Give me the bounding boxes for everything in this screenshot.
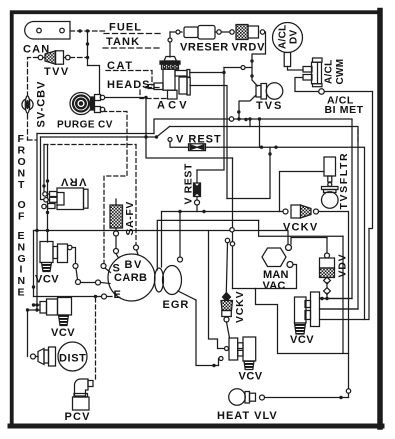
node connector circles on x232.5 bbox=[225, 228, 234, 246]
valve HEAT VLV bbox=[229, 389, 265, 406]
svg-text:DIST: DIST bbox=[59, 353, 86, 365]
wire HEADS dashed to ACV bbox=[140, 88, 168, 99]
node dots on VRDV wire bbox=[250, 59, 253, 77]
node open circle bbox=[176, 30, 180, 34]
svg-text:HEADS: HEADS bbox=[107, 79, 151, 91]
svg-text:VCKV: VCKV bbox=[234, 291, 246, 323]
label FRONT OF ENGINE (vertical letters) bbox=[18, 133, 26, 299]
wire bus y220.4 bbox=[157, 220, 258, 270]
wire x258.6 riser bbox=[259, 220, 343, 236]
node dot bbox=[32, 285, 35, 288]
valve VCV4 bbox=[295, 292, 320, 334]
wire fuel-tank dashed underlines bbox=[103, 34, 162, 49]
wire EGR bottom to VCV3 bbox=[196, 300, 219, 366]
wire CAT dashed bbox=[106, 71, 152, 86]
svg-text:O: O bbox=[18, 156, 26, 168]
svg-text:VRV: VRV bbox=[60, 176, 87, 188]
wire x279.5 tvs filter riser bbox=[280, 172, 325, 212]
filter TVSFLTR bbox=[322, 157, 339, 208]
svg-text:O: O bbox=[18, 199, 26, 211]
wire left bracket x208.5 down to VCV3 bbox=[209, 231, 225, 349]
wire x270 drop bbox=[227, 147, 270, 198]
wire purge bottom nipple dashed loop to carb bbox=[104, 110, 127, 264]
svg-text:SA-FV: SA-FV bbox=[124, 201, 136, 236]
valve SV-CBV bbox=[22, 96, 33, 114]
svg-text:DV: DV bbox=[289, 29, 300, 44]
wire right bus from BI MET x372.5 bbox=[369, 92, 373, 229]
wire bowtie output y147 to right column bbox=[206, 147, 365, 319]
svg-text:VRDV: VRDV bbox=[232, 42, 266, 54]
valve SA-FV bbox=[110, 199, 123, 257]
wire left column vertical v2 bbox=[41, 137, 44, 200]
wire HEAT VLV to x348.5 bbox=[265, 397, 349, 399]
svg-text:F: F bbox=[18, 133, 25, 145]
node DIST connector bbox=[31, 354, 36, 359]
motor A/CL CWM bbox=[303, 58, 322, 87]
node open circle on stub bbox=[241, 66, 245, 70]
wire canister to fuel tank (dashed) bbox=[70, 30, 106, 32]
svg-text:N: N bbox=[18, 168, 26, 180]
svg-text:TANK: TANK bbox=[106, 36, 140, 48]
svg-text:F: F bbox=[18, 211, 25, 223]
wire bus y119 to right column bbox=[154, 119, 352, 299]
wire left column vertical v4 bbox=[47, 145, 49, 243]
wire ACV arm to bus bbox=[190, 72, 224, 74]
label A/CL DV (rotated) bbox=[278, 24, 300, 49]
valve VRDV bbox=[217, 25, 265, 40]
wire y211.5 left corner down to EGR flange bbox=[161, 212, 163, 268]
label A/CL BI MET bbox=[325, 95, 364, 117]
valve ACV bbox=[148, 57, 190, 100]
wire VRESER net vertical into ACV top bbox=[169, 32, 171, 57]
svg-text:PCV: PCV bbox=[65, 411, 91, 423]
node dot TVS tee bbox=[237, 117, 240, 120]
svg-text:VCV: VCV bbox=[239, 371, 263, 383]
svg-text:BV: BV bbox=[125, 259, 143, 271]
node dots on y211.5 bbox=[178, 210, 205, 213]
svg-text:E: E bbox=[18, 230, 25, 242]
wire to purge cv top nipple bbox=[88, 66, 100, 94]
svg-text:N: N bbox=[18, 275, 26, 287]
wire manvac top riser y230.5 bus bbox=[34, 231, 289, 245]
wire carb bus y211.5 bbox=[162, 211, 284, 213]
valve VDV bbox=[291, 238, 335, 299]
node VRV hose connectors bbox=[42, 192, 48, 209]
node open circle on drop bbox=[346, 389, 350, 393]
canister (charcoal can) bbox=[25, 22, 70, 40]
EGR valve bbox=[155, 266, 197, 301]
wire VCV2 feeds bbox=[28, 305, 41, 310]
node connector on bus y119 bbox=[229, 117, 233, 121]
reservoir VRESER bbox=[184, 26, 215, 40]
svg-text:A/CL: A/CL bbox=[324, 59, 335, 84]
wire VCV1 to carb via circles bbox=[72, 248, 110, 286]
node open circle on ACV stem bbox=[168, 38, 172, 42]
svg-text:TVS: TVS bbox=[256, 100, 283, 112]
node dot bbox=[222, 71, 225, 74]
svg-text:ACV: ACV bbox=[157, 100, 190, 112]
wire VRV pin stubs bbox=[46, 194, 49, 207]
valve VCV2 bbox=[40, 298, 72, 326]
node connector on E line bbox=[102, 294, 107, 299]
wire left column vertical v1 bbox=[36, 134, 38, 311]
wire connector to carb bbox=[137, 250, 139, 255]
node VCV1 connector bbox=[68, 245, 72, 249]
valve A/CL DV bbox=[273, 23, 303, 67]
node EGR top connector bbox=[178, 257, 183, 262]
label FUEL TANK bbox=[106, 22, 142, 49]
valve V REST vertical (to carb) bbox=[194, 170, 201, 212]
wire drops to VCKV vertical bbox=[226, 243, 227, 293]
label A/CL CWM (vertical) bbox=[324, 59, 347, 85]
wire VCKV to x348.5 drop bbox=[319, 212, 349, 398]
wire TVV right to canister net bbox=[70, 57, 88, 59]
valve VCKV (vertical, above VCV3) bbox=[221, 293, 233, 339]
wire bus y137 from left column bbox=[41, 136, 157, 138]
wire MAN VAC bottom to heat valve net bbox=[233, 265, 297, 289]
svg-text:E: E bbox=[114, 289, 121, 301]
svg-text:SV-CBV: SV-CBV bbox=[36, 81, 48, 128]
svg-text:N: N bbox=[18, 242, 26, 254]
node hose connector to carb bbox=[101, 264, 106, 269]
svg-text:TVV: TVV bbox=[44, 66, 70, 78]
node dots on y147 bbox=[260, 146, 278, 149]
svg-text:VCV: VCV bbox=[51, 327, 75, 339]
wire BI MET to right bus bbox=[325, 91, 373, 93]
wire DIST feed bbox=[27, 310, 29, 357]
wire ACV flange to x227 vertical bbox=[190, 86, 227, 199]
carburetor BV CARB bbox=[108, 254, 155, 301]
wire dashed stub on x358 bbox=[357, 130, 359, 143]
wire CWM to BI MET circle bbox=[295, 78, 319, 92]
svg-text:V REST: V REST bbox=[183, 163, 195, 205]
svg-text:HEAT VLV: HEAT VLV bbox=[217, 410, 278, 422]
valve MAN VAC (hexagon) bbox=[262, 245, 293, 268]
wire purge top nipple to ACV left arm bbox=[105, 98, 146, 138]
svg-text:PURGE: PURGE bbox=[57, 120, 95, 131]
wire connector stubs y119 taps bbox=[249, 119, 251, 127]
node A/CL BI MET connector bbox=[319, 89, 325, 95]
node dot bbox=[86, 42, 89, 59]
wire carb E line bbox=[34, 296, 113, 298]
wire zigzag to heat valve net bbox=[256, 289, 349, 354]
svg-text:FUEL: FUEL bbox=[109, 22, 142, 34]
valve TVV bbox=[38, 51, 70, 64]
node dots bbox=[237, 110, 248, 121]
svg-text:CV: CV bbox=[98, 120, 113, 131]
svg-text:VAC: VAC bbox=[263, 280, 286, 292]
node dots bbox=[26, 303, 39, 311]
node dot and diagonal riser bbox=[155, 135, 158, 138]
svg-text:T: T bbox=[18, 179, 25, 191]
svg-text:EGR: EGR bbox=[163, 299, 190, 311]
node dots on VCV4 top pin bbox=[320, 297, 328, 300]
node dot on E line bbox=[94, 295, 97, 298]
svg-text:VCV: VCV bbox=[35, 274, 59, 286]
label MAN VAC bbox=[263, 269, 289, 292]
wire A/CL DV to CWM bbox=[288, 67, 304, 71]
valve VCV3 bbox=[219, 337, 256, 370]
wire VRDV down to TVS bbox=[252, 32, 266, 86]
wire bus y158 bbox=[146, 137, 233, 158]
valve VRV bbox=[48, 188, 89, 210]
svg-text:VCV: VCV bbox=[290, 334, 314, 346]
wire cross stub h67.5 bbox=[224, 67, 252, 69]
wire connector to carb body bbox=[105, 268, 111, 273]
svg-text:CWM: CWM bbox=[335, 59, 346, 85]
valve TVS bbox=[256, 83, 283, 100]
valve VCKV (horizontal) bbox=[283, 205, 319, 218]
node dot bbox=[268, 152, 271, 155]
wire stub to ACV arm bbox=[146, 87, 148, 89]
wire EGR top riser bbox=[179, 212, 181, 258]
wire TVS to bus y119.5 bbox=[239, 95, 256, 120]
node dots purge wire bbox=[144, 96, 147, 139]
wire PCV dashed bbox=[95, 298, 97, 381]
wire x343 drop to heat valve line bbox=[342, 236, 344, 353]
node canister line junctions bbox=[78, 29, 89, 32]
node dot bbox=[339, 396, 342, 399]
valve V REST (bowtie) bbox=[168, 138, 206, 151]
wire long vertical x224 bbox=[197, 68, 224, 171]
wire VRESER horizontal bbox=[170, 31, 182, 33]
wire bus y126.5 to right column bbox=[170, 127, 359, 310]
svg-text:R: R bbox=[18, 145, 26, 157]
svg-text:CARB: CARB bbox=[114, 272, 147, 284]
wire x33.5 riser (E net) bbox=[33, 231, 35, 297]
wire junction vertical x87.5 bbox=[87, 31, 89, 66]
node hose connector to carb top bbox=[134, 245, 139, 250]
wire left column vertical v3 bbox=[43, 145, 44, 195]
node dots left column bbox=[35, 179, 49, 232]
valve VCV1 bbox=[40, 242, 68, 272]
svg-text:VCKV: VCKV bbox=[283, 222, 318, 234]
svg-text:I: I bbox=[20, 264, 23, 276]
svg-text:VDV: VDV bbox=[337, 254, 349, 278]
wire x232.5 drop bbox=[232, 158, 234, 289]
wire VRESER to VRDV bbox=[215, 31, 230, 33]
wire VCV4 pin stubs bbox=[320, 229, 370, 320]
wire TVV left dashed to SV-CBV bbox=[28, 58, 39, 141]
svg-text:BI MET: BI MET bbox=[325, 104, 364, 116]
node dot bbox=[212, 364, 215, 367]
wire bus y133.5 from left column bbox=[37, 133, 154, 135]
svg-text:VRESER: VRESER bbox=[180, 42, 229, 54]
svg-text:E: E bbox=[18, 287, 25, 299]
pump PURGE CV bbox=[70, 93, 105, 115]
svg-text:TVSFLTR: TVSFLTR bbox=[338, 152, 350, 210]
svg-text:A/CL: A/CL bbox=[278, 24, 289, 49]
distributor DIST bbox=[36, 342, 88, 371]
valve PCV (elbow) bbox=[73, 379, 94, 410]
wire dashed bus y144.5 bbox=[44, 145, 136, 246]
